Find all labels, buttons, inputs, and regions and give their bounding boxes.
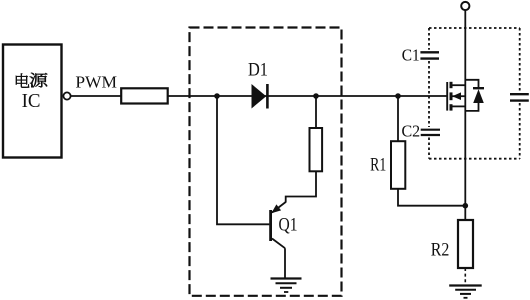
svg-text:R2: R2 xyxy=(431,240,450,261)
wire: drain line down through MOSFET to R2 xyxy=(464,10,466,220)
PWM output terminal xyxy=(63,92,70,99)
capacitor (output, right edge) xyxy=(510,94,529,100)
svg-text:C2: C2 xyxy=(401,122,420,141)
text 电 (power IC label char 1) xyxy=(16,74,29,88)
transistor Q1 xyxy=(271,202,286,248)
wire: left branch down to Q1 base xyxy=(217,96,269,224)
svg-text:Q1: Q1 xyxy=(279,216,298,236)
diode D1 xyxy=(252,84,268,109)
dashed box (driver circuit) xyxy=(190,28,342,296)
resistor R2 xyxy=(458,220,473,268)
svg-text:R1: R1 xyxy=(370,155,386,175)
power IC box (电源 IC) xyxy=(3,45,62,158)
resistor (gate series, unlabeled) xyxy=(121,88,168,103)
wire: node C down to R1 xyxy=(397,96,399,141)
wire: main horizontal PWM line to MOSFET gate xyxy=(168,95,448,97)
node B (junction right of D1) xyxy=(313,93,319,99)
resistor (pull-down in driver box, unlabeled) xyxy=(310,128,323,171)
text 源 (power IC label char 2) xyxy=(30,73,47,88)
drain terminal (top) xyxy=(461,2,469,10)
wire: PWM terminal to gate resistor xyxy=(71,95,122,97)
wire: Q1 collector to ground xyxy=(284,248,286,278)
svg-text:IC: IC xyxy=(22,90,41,112)
wire (dashed): R2 to ground xyxy=(464,268,466,285)
wire: R1 bottom to source node xyxy=(398,189,465,206)
wire: resistor to Q1 emitter xyxy=(286,171,316,203)
dotted box (MOSFET model) xyxy=(429,28,520,159)
ground (under R2) xyxy=(449,286,482,298)
svg-text:PWM: PWM xyxy=(75,73,117,92)
wire: node B down to resistor xyxy=(315,96,317,128)
ground (under Q1) xyxy=(271,279,302,293)
MOSFET (in dotted box) xyxy=(447,82,465,111)
node C (junction to R1) xyxy=(395,93,401,99)
node D (source node) xyxy=(463,203,469,209)
svg-text:C1: C1 xyxy=(402,45,420,64)
capacitor C1 xyxy=(420,52,439,58)
svg-text:D1: D1 xyxy=(248,61,268,81)
capacitor C2 xyxy=(421,130,440,135)
body diode of MOSFET xyxy=(465,80,484,111)
node A (junction left of D1) xyxy=(214,93,220,99)
resistor R1 xyxy=(391,141,405,189)
